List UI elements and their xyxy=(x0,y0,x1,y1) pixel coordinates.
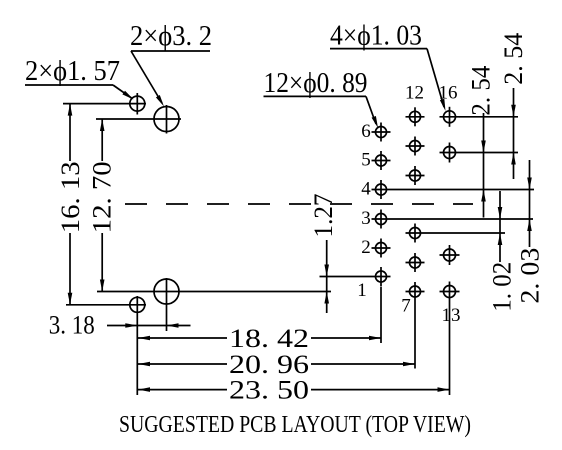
pin hole 13 (Phi1.03) xyxy=(440,282,460,302)
dimension 1.27 vertical xyxy=(326,240,328,313)
svg-text:16. 13: 16. 13 xyxy=(56,161,85,233)
pin hole 10 (Phi0.89) xyxy=(406,166,425,185)
extension line pin9 row xyxy=(425,232,506,234)
svg-text:SUGGESTED PCB LAYOUT (TOP VIEW: SUGGESTED PCB LAYOUT (TOP VIEW) xyxy=(119,412,471,438)
svg-text:6: 6 xyxy=(361,121,371,142)
extension line pin1 row (left of pin1) xyxy=(320,276,372,278)
pin hole 16 (Phi1.03) xyxy=(440,107,460,127)
svg-text:18. 42: 18. 42 xyxy=(229,324,309,353)
svg-text:1: 1 xyxy=(357,280,367,301)
pin hole 4 (Phi0.89) xyxy=(372,180,391,199)
dimension 16.13 vertical xyxy=(69,104,71,161)
dimension 2.54 first vertical xyxy=(483,113,485,218)
pin hole 3 (Phi0.89) xyxy=(372,210,391,229)
dimension 2.54 second vertical xyxy=(513,88,515,179)
pin hole 9 (Phi0.89) xyxy=(406,224,425,243)
svg-text:2: 2 xyxy=(361,237,371,258)
svg-text:2×ϕ3. 2: 2×ϕ3. 2 xyxy=(130,21,212,52)
pin hole 1 (Phi0.89) xyxy=(372,267,391,286)
svg-text:23. 50: 23. 50 xyxy=(229,376,309,405)
dimension 2.03 vertical xyxy=(529,160,531,247)
svg-text:1. 02: 1. 02 xyxy=(488,262,517,312)
dimension 18.42 xyxy=(138,337,227,339)
extension line below pin 1 xyxy=(380,287,382,344)
dimension 12.70 vertical xyxy=(101,119,103,161)
svg-text:2×ϕ1. 57: 2×ϕ1. 57 xyxy=(25,56,120,87)
dimension 23.50 xyxy=(138,389,227,391)
dimension 20.96 xyxy=(138,363,227,365)
pin hole 7 (Phi0.89) xyxy=(406,282,425,301)
svg-text:13: 13 xyxy=(442,305,461,326)
dashed centerline xyxy=(125,203,473,205)
pin hole 2 (Phi0.89) xyxy=(372,239,391,258)
pin hole 6 (Phi0.89) xyxy=(372,123,391,142)
svg-text:4×ϕ1. 03: 4×ϕ1. 03 xyxy=(330,21,422,52)
svg-text:5: 5 xyxy=(361,150,371,171)
extension line pin15 row xyxy=(460,152,519,154)
pin hole 12 (Phi0.89) xyxy=(406,107,425,126)
pin hole 5 (Phi0.89) xyxy=(372,151,391,170)
svg-text:12×ϕ0. 89: 12×ϕ0. 89 xyxy=(264,68,368,99)
svg-text:12: 12 xyxy=(405,83,424,104)
svg-text:2. 54: 2. 54 xyxy=(499,33,528,85)
mounting hole top small (2xPhi1.57) with crosshair xyxy=(130,96,145,111)
extension line pin16 row xyxy=(459,116,518,118)
svg-text:2. 03: 2. 03 xyxy=(516,248,545,304)
pin hole 11 (Phi0.89) xyxy=(406,137,425,156)
svg-text:3: 3 xyxy=(361,208,371,229)
svg-text:1.27: 1.27 xyxy=(309,194,338,238)
pin hole 14 (Phi1.03) xyxy=(440,245,460,265)
dimension 1.02 vertical xyxy=(499,191,501,262)
pin hole 15 (Phi1.03) xyxy=(440,143,460,163)
dimension 3.18 xyxy=(107,325,191,327)
extension line below pin 13 xyxy=(449,302,451,396)
mounting hole top big (2xPhi3.2) with crosshair xyxy=(154,107,179,132)
svg-text:4: 4 xyxy=(361,179,371,200)
svg-text:3. 18: 3. 18 xyxy=(49,311,95,340)
extension line pin3 row xyxy=(391,218,534,220)
svg-text:12. 70: 12. 70 xyxy=(88,161,117,233)
svg-text:7: 7 xyxy=(401,296,411,317)
extension line below pin 7 xyxy=(414,301,416,369)
pin hole 8 (Phi0.89) xyxy=(406,253,425,272)
mounting hole bottom small (2xPhi1.57) with crosshair xyxy=(130,297,145,312)
mounting hole bottom big (2xPhi3.2) with crosshair xyxy=(154,279,179,304)
svg-text:2. 54: 2. 54 xyxy=(467,66,496,116)
extension line pin4 row xyxy=(391,189,535,191)
